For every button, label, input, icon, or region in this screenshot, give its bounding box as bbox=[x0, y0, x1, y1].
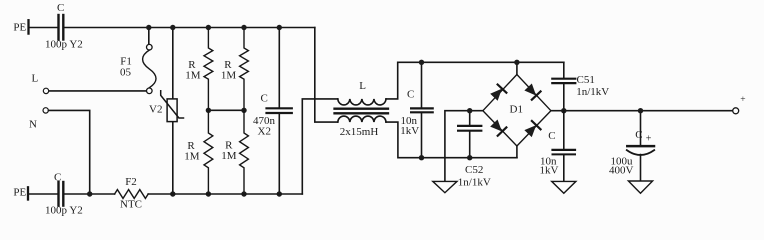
junction bbox=[87, 191, 92, 196]
wire resistor mid tie bbox=[208, 109, 244, 111]
svg-text:100p Y2: 100p Y2 bbox=[45, 205, 83, 217]
diode D1c (left to bottom) bbox=[490, 119, 507, 136]
svg-text:C: C bbox=[57, 2, 64, 14]
wire N rail rise to choke upper winding bbox=[302, 99, 338, 194]
wire bridge minus output to ground bbox=[445, 111, 483, 182]
wire DC plus rail bbox=[551, 110, 733, 112]
ground (under 100u) bbox=[628, 181, 652, 193]
junction bbox=[146, 25, 151, 30]
svg-text:1kV: 1kV bbox=[400, 125, 419, 137]
capacitor C2 (470n X2) bbox=[278, 28, 280, 108]
wire bbox=[29, 27, 58, 29]
svg-text:2x15mH: 2x15mH bbox=[340, 126, 379, 138]
svg-text:1n/1kV: 1n/1kV bbox=[458, 176, 491, 188]
svg-text:1M: 1M bbox=[184, 151, 200, 163]
junction bbox=[561, 108, 566, 113]
wire top L rail bbox=[65, 27, 315, 29]
junction bbox=[170, 191, 175, 196]
bridge rectifier D1 bbox=[483, 75, 551, 147]
svg-text:X2: X2 bbox=[258, 126, 271, 138]
junction bbox=[419, 155, 424, 160]
svg-text:1M: 1M bbox=[221, 70, 237, 82]
svg-text:C: C bbox=[548, 130, 555, 142]
junction bbox=[277, 191, 282, 196]
svg-text:1kV: 1kV bbox=[540, 165, 559, 177]
terminal PE bottom bbox=[27, 187, 29, 199]
svg-text:C: C bbox=[54, 172, 61, 184]
inductor L common-mode choke upper winding bbox=[338, 99, 386, 105]
capacitor C1 (100p Y2) top bbox=[57, 15, 59, 40]
capacitor C3 (100p Y2) bottom bbox=[57, 182, 59, 206]
terminal PE top bbox=[27, 20, 29, 33]
svg-text:N: N bbox=[29, 118, 37, 130]
capacitor C6 (100u 400V electrolytic) bbox=[640, 111, 642, 146]
svg-text:400V: 400V bbox=[609, 165, 634, 177]
junction bbox=[277, 25, 282, 30]
svg-text:F2: F2 bbox=[125, 176, 137, 188]
fuse F1 bbox=[148, 28, 150, 45]
svg-text:L: L bbox=[32, 73, 39, 85]
svg-text:D1: D1 bbox=[510, 104, 523, 116]
inductor L common-mode choke lower winding bbox=[338, 116, 386, 122]
junction bbox=[467, 108, 472, 113]
capacitor C4 (10n 1kV, after choke) bbox=[421, 62, 423, 107]
junction bbox=[206, 25, 211, 30]
svg-text:C51: C51 bbox=[577, 74, 595, 86]
svg-text:1M: 1M bbox=[185, 70, 201, 82]
inductor core bbox=[335, 108, 389, 110]
wire bbox=[49, 90, 146, 92]
wire L rail drop to choke lower winding bbox=[315, 28, 338, 123]
diode D1a (left to top) bbox=[490, 84, 507, 101]
junction bbox=[241, 108, 246, 113]
svg-text:C: C bbox=[407, 89, 414, 101]
resistor R2 (1M upper-right) bbox=[240, 28, 249, 111]
svg-text:NTC: NTC bbox=[120, 199, 142, 211]
svg-text:1M: 1M bbox=[221, 150, 237, 162]
capacitor C52 (1n/1kV) bbox=[469, 111, 471, 125]
junction bbox=[419, 60, 424, 65]
terminal L bbox=[43, 88, 48, 93]
svg-text:PE: PE bbox=[13, 22, 26, 34]
junction bbox=[467, 155, 472, 160]
wire choke upper winding to AC1 rail bbox=[386, 62, 564, 99]
resistor R3 (1M lower-left) bbox=[204, 110, 213, 194]
resistor R4 (1M lower-right) bbox=[240, 110, 249, 194]
wire choke lower winding to AC2 rail bbox=[386, 122, 517, 158]
svg-text:C: C bbox=[261, 93, 268, 105]
svg-text:C: C bbox=[635, 129, 642, 141]
svg-text:PE: PE bbox=[13, 187, 26, 199]
svg-text:C52: C52 bbox=[465, 164, 483, 176]
resistor R1 (1M upper-left) bbox=[204, 28, 213, 111]
svg-text:+: + bbox=[740, 95, 745, 105]
svg-text:V2: V2 bbox=[149, 104, 162, 116]
junction bbox=[206, 108, 211, 113]
ground (under 10n) bbox=[552, 181, 576, 193]
terminal + output bbox=[733, 108, 739, 114]
svg-text:100p Y2: 100p Y2 bbox=[45, 39, 83, 51]
thermistor F2 NTC bbox=[115, 190, 149, 199]
wire bbox=[49, 110, 90, 194]
wire bottom N rail left bbox=[65, 193, 115, 195]
svg-text:05: 05 bbox=[120, 67, 132, 79]
wire bottom N rail right bbox=[148, 193, 302, 195]
wire bbox=[29, 193, 58, 195]
svg-text:+: + bbox=[646, 133, 652, 144]
junction bbox=[206, 191, 211, 196]
terminal N bbox=[43, 108, 48, 113]
capacitor C5 (10n 1kV, DC bus) bbox=[563, 111, 565, 149]
varistor V2 bbox=[172, 28, 174, 99]
junction bbox=[170, 25, 175, 30]
ground (bridge minus) bbox=[433, 181, 457, 192]
svg-text:L: L bbox=[359, 80, 366, 92]
junction bbox=[638, 108, 643, 113]
junction bbox=[241, 25, 246, 30]
diode D1b (top to right) bbox=[524, 83, 541, 100]
diode D1d (bottom to right) bbox=[524, 121, 541, 138]
junction bbox=[241, 191, 246, 196]
svg-text:1n/1kV: 1n/1kV bbox=[576, 86, 609, 98]
capacitor C51 (1n/1kV) bbox=[563, 62, 565, 77]
junction bbox=[514, 60, 519, 65]
